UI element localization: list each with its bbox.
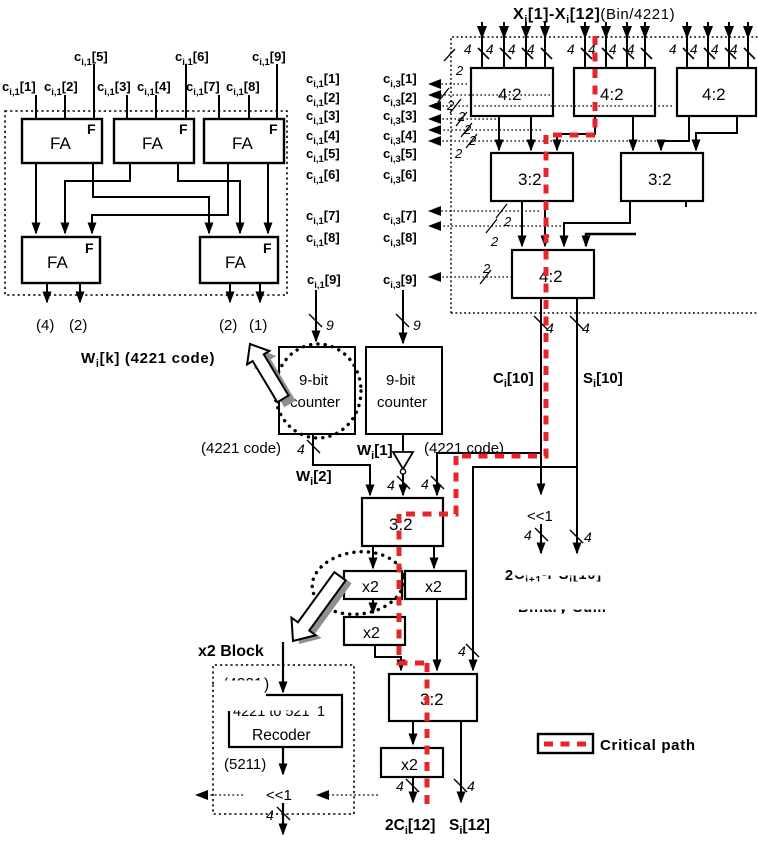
compressor 4:2 C	[677, 68, 756, 116]
svg-text:4: 4	[582, 320, 590, 336]
label c_i,1[3]	[97, 79, 131, 98]
label (2)	[219, 317, 237, 334]
slash 2 mark on box left edge	[444, 49, 464, 78]
svg-text:4: 4	[627, 42, 635, 57]
recoder box (top-left erased)	[229, 695, 342, 747]
compressor 4:2 A	[471, 68, 553, 116]
svg-text:FA: FA	[142, 134, 163, 153]
svg-text:4: 4	[266, 807, 274, 823]
svg-text:x2: x2	[363, 625, 380, 642]
svg-text:4: 4	[567, 42, 575, 57]
svg-text:9-bit: 9-bit	[386, 372, 416, 389]
dotted feedback line c_i,3[4]a	[428, 112, 496, 137]
label C_i[10]	[493, 370, 534, 390]
full adder FA4	[22, 237, 100, 283]
compressor 4:2 B	[574, 68, 655, 116]
wire S_i[12] output	[454, 721, 475, 802]
dotted box: counter slice (left)	[5, 111, 287, 295]
multiplier x2 #2	[405, 571, 466, 599]
svg-text:FA: FA	[232, 134, 253, 153]
svg-text:4: 4	[711, 42, 719, 57]
svg-text:4: 4	[524, 527, 532, 543]
compressor 4:2 D	[512, 250, 594, 298]
label c_i,1[6]	[175, 49, 209, 68]
svg-text:counter: counter	[377, 394, 427, 411]
svg-text:Recoder: Recoder	[252, 727, 311, 744]
wire C_i[10] from 4:2D	[534, 298, 554, 453]
dotted feedback line c_i,3[1]	[428, 79, 467, 89]
wire S down arrow	[570, 467, 592, 553]
svg-text:2: 2	[490, 234, 499, 249]
label W_i[2]	[296, 468, 332, 488]
label X_i[1]-X_i[12](Bin/4221)	[513, 6, 675, 26]
svg-text:F: F	[179, 121, 188, 137]
svg-text:4:2: 4:2	[600, 85, 624, 104]
full adder FA1	[22, 119, 102, 163]
wire C to <<1	[540, 453, 542, 494]
wire c_i,1[9] to 9-bit counter 1	[309, 290, 334, 341]
wire 3:2 to x2 #2	[433, 546, 435, 568]
wire 3:2R out2 stub (erased)	[685, 201, 687, 207]
dotted feedback line c_i,3[5]	[428, 134, 656, 161]
svg-text:(2): (2)	[69, 317, 87, 334]
svg-text:4:2: 4:2	[702, 85, 726, 104]
wire FA4 out (4)	[46, 283, 48, 302]
label (4)	[36, 317, 54, 334]
wire 4:2C out1 to 3:2R	[661, 116, 689, 150]
wire <<1 out	[266, 803, 290, 834]
dotted feedback line c_i,3[8]	[428, 219, 561, 249]
svg-text:F: F	[85, 240, 94, 256]
wire FA3 carry to FA5	[267, 163, 269, 233]
svg-text:counter: counter	[290, 394, 340, 411]
svg-text:F: F	[87, 121, 96, 137]
wire input stub FA1 in1	[35, 95, 37, 119]
svg-text:4: 4	[730, 42, 738, 57]
svg-text:2: 2	[482, 261, 491, 276]
svg-text:x2: x2	[362, 579, 379, 596]
compressor 3:2 (middle)	[362, 498, 443, 546]
wire x2#3 to final 3:2	[375, 645, 401, 670]
label W_i[1]	[357, 442, 393, 462]
wire input stub FA3 in3 (from c_i,1[9])	[276, 64, 278, 119]
erased text Binary Sum	[518, 600, 607, 616]
hollow arrow (pointing to counter slice) shadow	[246, 342, 301, 410]
input X lines into 4:2 blocks (12 wires, bus-4 slashes)	[482, 22, 748, 68]
label Critical path	[600, 737, 696, 754]
wire FA1 carry to FA5	[93, 163, 209, 233]
label S_i[10]	[583, 370, 623, 390]
wire FA4 out (2)	[79, 283, 81, 302]
svg-text:3:2: 3:2	[648, 170, 672, 189]
wire S_i[10] from 4:2D	[570, 298, 590, 467]
wire c_i,3[9] to 9-bit counter 2	[396, 290, 421, 343]
svg-text:4: 4	[508, 42, 516, 57]
wire input stub FA2 in3 (from c_i,1[6])	[185, 64, 187, 119]
label x2 Block	[198, 643, 264, 660]
wire 3:2L out2 to 4:2D (critical)	[544, 201, 546, 246]
inverter under counter 2	[393, 434, 413, 474]
svg-text:9-bit: 9-bit	[299, 372, 329, 389]
svg-text:<<1: <<1	[266, 787, 292, 804]
svg-text:4: 4	[458, 643, 466, 659]
dotted feedback line c_i,3[2]	[428, 88, 554, 113]
label column c_i,1[1..9]	[306, 71, 341, 291]
svg-text:(5211): (5211)	[224, 756, 266, 773]
multiplier x2 #3	[344, 617, 405, 645]
svg-text:4: 4	[464, 42, 472, 57]
wire into recoder	[282, 642, 284, 692]
label c_i,1[2]	[44, 79, 78, 98]
svg-text:4: 4	[486, 42, 494, 57]
multiplier x2 #4	[381, 748, 443, 777]
wire 3:2 to x2 #1	[372, 546, 374, 568]
label (5211)	[224, 756, 266, 773]
svg-text:2: 2	[454, 146, 463, 161]
svg-text:4: 4	[584, 529, 592, 545]
svg-text:(4221 code): (4221 code)	[201, 440, 281, 457]
dotted box: x2 block (bottom left)	[213, 665, 354, 814]
svg-text:F: F	[269, 121, 278, 137]
wire x2#1 to x2#3	[372, 599, 374, 613]
dotted arrow right of <<1	[316, 790, 378, 800]
wire counter1 W_i[2] to 3:2	[297, 434, 370, 495]
label (4221 code) right	[424, 440, 504, 457]
dotted feedback line c_i,3[9]	[428, 261, 512, 284]
svg-text:4: 4	[690, 42, 698, 57]
wire input stub FA3 in2	[248, 95, 250, 119]
label c_i,1[9]	[252, 49, 286, 68]
label <<1	[527, 508, 553, 525]
wire FA5 out (2)	[229, 283, 231, 302]
svg-text:4: 4	[421, 476, 429, 492]
wire S branch to final 3:2	[458, 467, 577, 670]
wire 4:2B out1 to 3:2L (critical)	[557, 116, 595, 150]
wire C_i[10] branch to 3:2	[421, 453, 541, 495]
svg-text:2: 2	[503, 214, 512, 229]
wire inverter to 3:2	[387, 474, 410, 495]
svg-text:2: 2	[505, 568, 513, 584]
wire dangling to 4:2D in4	[586, 234, 636, 246]
label column c_i,3[1..9]	[383, 71, 417, 291]
svg-text:9: 9	[413, 317, 421, 333]
label <<1 (recoder)	[266, 787, 292, 804]
dotted circle around x2 #1	[309, 547, 408, 620]
svg-text:4: 4	[609, 42, 617, 57]
wire 4:2C out2 to 3:2R	[696, 116, 737, 150]
dotted feedback line c_i,3[3]	[428, 99, 672, 124]
wire input stub FA2 in2	[155, 95, 157, 119]
hollow arrow (pointing to counter slice)	[239, 337, 294, 405]
wire input stub FA3 in1	[218, 95, 220, 119]
label 2C_i[12]	[385, 817, 435, 837]
svg-text:x2: x2	[425, 579, 442, 596]
svg-text:F: F	[263, 240, 272, 256]
label ) of (4221)	[264, 676, 269, 693]
wire input stub FA2 in1	[126, 95, 128, 119]
svg-text:FA: FA	[50, 134, 71, 153]
svg-text:(4): (4)	[36, 317, 54, 334]
label (1)	[249, 317, 267, 334]
label c_i,1[7]	[186, 79, 220, 98]
svg-text:x2 Block: x2 Block	[198, 643, 264, 660]
svg-text:4: 4	[387, 477, 395, 493]
label W_i[k] (4221 code)	[81, 350, 215, 370]
compressor 3:2 L	[491, 153, 573, 201]
svg-text:3:2: 3:2	[420, 690, 444, 709]
label c_i,1[5]	[74, 49, 108, 68]
legend box	[538, 734, 593, 753]
wire 2C_i[12] output	[396, 777, 419, 802]
full adder FA5	[200, 237, 278, 283]
wire final 3:2 to x2 #4	[412, 721, 414, 744]
erased text 2C..S[10]	[505, 567, 602, 586]
svg-text:<<1: <<1	[527, 508, 553, 525]
full adder FA2	[114, 119, 194, 163]
compressor 3:2 (final)	[389, 674, 477, 721]
wire x2#2 to final 3:2	[436, 599, 438, 670]
hollow arrow (pointing to x2 block) shadow	[287, 570, 358, 652]
wire 4:2A out1 to 3:2L	[498, 116, 500, 150]
9-bit counter 1	[279, 347, 355, 434]
wire FA2 carry to FA5	[178, 163, 240, 233]
dotted circle around counter 1	[275, 344, 361, 438]
wire below <<1	[524, 524, 548, 553]
wire 4:2B out2 to 3:2R	[632, 116, 634, 150]
wire input stub FA1 in2	[64, 95, 66, 119]
wire 3:2L out1 to 4:2D	[521, 201, 523, 246]
label 1 (of 5211)	[317, 704, 325, 720]
svg-text:9: 9	[326, 317, 334, 333]
label S_i[12]	[449, 817, 490, 837]
wire input stub FA1 in3 (from c_i,1[5])	[93, 64, 95, 119]
label c_i,1[8]	[226, 79, 260, 98]
svg-text:): )	[264, 676, 269, 693]
full adder FA3	[204, 119, 284, 163]
svg-text:4: 4	[669, 42, 677, 57]
wire FA5 out (1)	[259, 283, 261, 302]
svg-text:1: 1	[317, 704, 325, 720]
svg-text:(1): (1)	[249, 317, 267, 334]
svg-text:4: 4	[527, 42, 535, 57]
svg-text:2: 2	[455, 63, 464, 78]
label Recoder	[252, 727, 311, 744]
wire FA1 sum to FA4	[35, 163, 37, 233]
svg-text:FA: FA	[47, 253, 68, 272]
svg-text:4: 4	[396, 778, 404, 794]
wire 4:2A out2 to 3:2L	[530, 116, 532, 150]
label (4221 code) left	[201, 440, 281, 457]
dotted feedback line c_i,3[7]	[428, 204, 539, 229]
svg-text:FA: FA	[225, 253, 246, 272]
wire 3:2R out1 to 4:2D	[564, 201, 630, 246]
svg-text:(2): (2)	[219, 317, 237, 334]
wire FA3 sum to FA4	[92, 163, 228, 233]
wire FA2 sum to FA4	[65, 163, 130, 233]
svg-text:4: 4	[297, 441, 305, 457]
erased label (4221)	[223, 676, 263, 693]
erased label 4221 to 5211	[233, 704, 310, 720]
hollow arrow (pointing to x2 block)	[281, 567, 352, 649]
wire recoder out	[282, 747, 284, 774]
critical path (red dashed)	[399, 36, 595, 809]
label (2)	[69, 317, 87, 334]
dotted arrow left of <<1	[195, 790, 243, 800]
9-bit counter 2	[366, 347, 442, 434]
compressor 3:2 R	[621, 153, 703, 201]
label c_i,1[1]	[2, 79, 36, 98]
dotted feedback line c_i,3[4]b	[428, 123, 541, 148]
svg-text:4: 4	[467, 778, 475, 794]
svg-text:4:2: 4:2	[539, 267, 563, 286]
multiplier x2 #1	[344, 571, 402, 599]
svg-text:Critical path: Critical path	[600, 737, 696, 754]
dotted box: CPM block (right)	[451, 37, 758, 313]
label c_i,1[4]	[137, 79, 171, 98]
svg-text:3:2: 3:2	[518, 170, 542, 189]
svg-text:x2: x2	[401, 757, 418, 774]
